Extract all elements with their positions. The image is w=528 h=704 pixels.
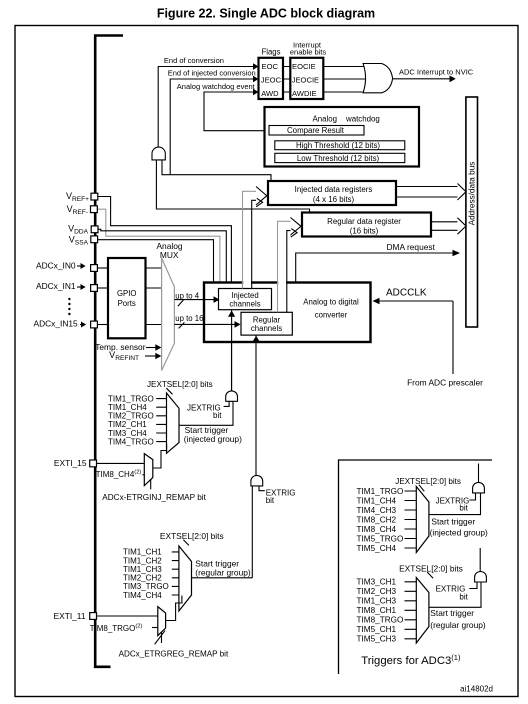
svg-text:TIM8_CH1: TIM8_CH1 — [357, 606, 397, 615]
svg-text:channels: channels — [251, 324, 282, 333]
ADC3 JEXTRIG bit label — [436, 493, 476, 512]
svg-text:(4 x 16 bits): (4 x 16 bits) — [313, 195, 355, 204]
svg-text:Compare Result: Compare Result — [287, 126, 345, 135]
svg-text:ADCx_IN0: ADCx_IN0 — [36, 260, 76, 270]
bus: injected channels to injected data registers — [243, 187, 267, 289]
wire: regular start trigger into channels — [253, 335, 260, 476]
ADC3 EXTSEL label — [399, 563, 463, 578]
flags register box — [259, 47, 284, 99]
wire: flags to enable connectors — [283, 67, 290, 93]
pin EXTI_15 — [54, 458, 144, 468]
wire: up to 16 — [174, 314, 240, 328]
svg-text:Injected data registers: Injected data registers — [295, 185, 373, 194]
svg-text:TIM5_CH4: TIM5_CH4 — [357, 544, 397, 553]
svg-text:enable bits: enable bits — [290, 47, 327, 56]
svg-text:converter: converter — [315, 310, 348, 319]
svg-text:Flags: Flags — [261, 47, 280, 56]
ADC3 injected trigger inputs — [357, 487, 417, 553]
svg-text:(16 bits): (16 bits) — [350, 227, 379, 236]
svg-text:Figure 22. Single ADC block di: Figure 22. Single ADC block diagram — [157, 7, 375, 21]
and-gate U4 (EXTRIG) — [251, 475, 263, 577]
svg-text:EXTI_15: EXTI_15 — [54, 458, 87, 468]
svg-text:Regular: Regular — [253, 316, 281, 325]
svg-text:TIM8_TRGO(2): TIM8_TRGO(2) — [90, 624, 143, 633]
svg-text:TIM1_CH3: TIM1_CH3 — [357, 597, 397, 606]
injected trigger inputs — [108, 394, 167, 446]
high threshold box — [275, 141, 405, 150]
vrefint input — [109, 350, 161, 362]
JEXTSEL label — [147, 380, 213, 394]
svg-text:EOCIE: EOCIE — [292, 62, 316, 71]
svg-text:TIM2_CH3: TIM2_CH3 — [357, 587, 397, 596]
TIM8_TRGO input — [90, 624, 158, 633]
wire: enable box to OR gate — [323, 67, 368, 93]
svg-text:End of injected conversion: End of injected conversion — [168, 69, 256, 78]
svg-text:EXTSEL[2:0] bits: EXTSEL[2:0] bits — [399, 563, 463, 573]
and-gate U1 (EOC combine) — [152, 147, 310, 212]
or-gate U2 (interrupt OR) — [363, 64, 393, 93]
svg-text:AWDIE: AWDIE — [292, 89, 317, 98]
svg-text:AWD: AWD — [261, 89, 279, 98]
mux: injected trigger select — [167, 393, 180, 453]
wire: up to 4 — [174, 292, 219, 307]
svg-text:JEOCIE: JEOCIE — [292, 76, 319, 85]
svg-text:Injected: Injected — [231, 291, 258, 300]
pin VDDA — [68, 224, 226, 283]
svg-text:End of conversion: End of conversion — [164, 56, 224, 65]
svg-text:TIM5_CH1: TIM5_CH1 — [357, 625, 397, 634]
svg-text:TIM1_TRGO: TIM1_TRGO — [357, 487, 404, 496]
regular channels box — [241, 312, 292, 335]
ADC3 regular trigger inputs — [357, 578, 417, 644]
bus: regular channels to regular data register — [278, 218, 302, 313]
and-gate U6 (ADC3 EXTRIG) — [475, 548, 487, 582]
svg-text:ADCCLK: ADCCLK — [386, 288, 427, 299]
svg-text:TIM4_TRGO: TIM4_TRGO — [108, 437, 154, 446]
ADC3 start trigger regular label — [430, 608, 486, 630]
svg-text:High Threshold (12 bits): High Threshold (12 bits) — [296, 141, 380, 150]
wire: U1 right input from injected data registers — [162, 160, 271, 181]
regular data register box — [302, 213, 431, 237]
TIM8_CH4 input — [96, 469, 145, 478]
injected channels box — [219, 289, 272, 310]
pin VSSA — [69, 234, 214, 282]
svg-text:Low Threshold (12 bits): Low Threshold (12 bits) — [297, 154, 380, 163]
svg-text:Triggers for ADC3(1): Triggers for ADC3(1) — [361, 653, 461, 667]
ADC3 JEXTSEL label — [395, 477, 461, 491]
analog to digital converter box — [204, 283, 371, 343]
svg-text:up to 16: up to 16 — [175, 314, 203, 323]
svg-text:EXTI_11: EXTI_11 — [54, 611, 86, 621]
svg-text:TIM8_TRGO: TIM8_TRGO — [357, 616, 404, 625]
svg-text:TIM5_CH3: TIM5_CH3 — [357, 635, 397, 644]
wire: Analog watchdog event — [177, 82, 269, 131]
wire: End of conversion — [158, 56, 258, 147]
GPIO ports box — [108, 258, 146, 338]
wire: injected start trigger into channels — [228, 310, 235, 392]
mux: regular trigger select — [179, 546, 192, 611]
start trigger regular label — [195, 559, 251, 578]
svg-text:JEOC: JEOC — [261, 76, 282, 85]
wire: ADC3 injected mux output — [429, 493, 481, 515]
svg-text:Address/data bus: Address/data bus — [468, 162, 477, 226]
compare result box — [269, 126, 364, 136]
wire: regular mux output — [192, 577, 253, 579]
svg-text:ADCx_ETRGREG_REMAP bit: ADCx_ETRGREG_REMAP bit — [119, 649, 229, 658]
svg-text:(regular group): (regular group) — [430, 620, 486, 630]
svg-text:Temp. sensor: Temp. sensor — [95, 342, 145, 352]
wire: DMA request — [296, 242, 460, 283]
svg-text:DMA request: DMA request — [387, 242, 436, 252]
svg-text:From ADC prescaler: From ADC prescaler — [407, 378, 483, 388]
svg-text:Regular data register: Regular data register — [327, 217, 401, 226]
svg-text:Ports: Ports — [118, 299, 136, 308]
wire: U1 left input from regular data register — [156, 160, 309, 213]
svg-text:channels: channels — [229, 300, 260, 309]
interrupt enable bits box — [290, 41, 327, 99]
svg-text:bit: bit — [459, 593, 468, 602]
low threshold box — [275, 153, 405, 163]
svg-text:Start trigger: Start trigger — [431, 516, 475, 526]
mux: injected remap — [144, 445, 166, 490]
and-gate U5 (ADC3 JEXTRIG) — [473, 464, 485, 493]
wire: End of injected conversion — [168, 69, 259, 175]
ADC3 start trigger injected label — [430, 516, 488, 537]
mux: ADC3 regular trigger select — [416, 578, 429, 644]
svg-text:TIM8_CH4: TIM8_CH4 — [357, 525, 397, 534]
regular trigger inputs — [123, 548, 179, 600]
svg-text:TIM8_CH2: TIM8_CH2 — [357, 515, 397, 524]
wire: regular register to bus (open arrow) — [431, 218, 466, 234]
wire: ADC3 regular mux output — [429, 582, 481, 607]
svg-text:Analog to digital: Analog to digital — [303, 297, 359, 306]
svg-text:TIM1_CH4: TIM1_CH4 — [357, 496, 397, 505]
pin ADCx_IN1 — [36, 281, 108, 291]
wire: ADC interrupt to NVIC — [393, 68, 474, 83]
injected data registers box — [268, 181, 396, 205]
analog mux trapezoid — [162, 258, 175, 371]
pin VREF+ — [66, 191, 231, 283]
and-gate U3 (JEXTRIG) — [226, 342, 238, 401]
ADC3 EXTRIG bit label — [436, 582, 477, 602]
svg-text:TIM3_CH1: TIM3_CH1 — [357, 578, 397, 587]
svg-text:EXTSEL[2:0] bits: EXTSEL[2:0] bits — [160, 531, 224, 541]
svg-text:bit: bit — [266, 496, 275, 505]
svg-text:watchdog: watchdog — [345, 114, 380, 123]
svg-text:(injected group): (injected group) — [184, 434, 242, 444]
pin ADCx_IN0 — [36, 260, 108, 271]
svg-text:ADCx_IN15: ADCx_IN15 — [34, 318, 79, 328]
start trigger injected label — [184, 425, 242, 444]
svg-text:Analog: Analog — [313, 114, 338, 123]
address/data bus bar — [466, 97, 478, 327]
temp sensor input — [95, 342, 161, 352]
svg-text:TIM1_CH1: TIM1_CH1 — [123, 548, 162, 557]
svg-text:JEXTSEL[2:0] bits: JEXTSEL[2:0] bits — [147, 380, 213, 389]
analog watchdog box — [265, 107, 420, 167]
svg-text:bit: bit — [459, 503, 468, 512]
gaps in converter top edge for data buses — [243, 281, 286, 284]
pin EXTI_11 — [54, 611, 158, 621]
EXTSEL label — [160, 531, 224, 545]
svg-text:JEXTSEL[2:0] bits: JEXTSEL[2:0] bits — [395, 477, 461, 486]
svg-text:EOC: EOC — [262, 62, 279, 71]
svg-text:ai14802d: ai14802d — [460, 684, 493, 693]
mux: regular remap — [155, 596, 182, 645]
svg-text:TIM5_TRGO: TIM5_TRGO — [357, 534, 404, 543]
svg-text:TIM4_CH3: TIM4_CH3 — [357, 506, 397, 515]
wire: thick left supply rail — [95, 36, 123, 667]
svg-text:(regular group): (regular group) — [195, 567, 251, 577]
svg-text:(injected group): (injected group) — [430, 527, 488, 537]
svg-text:Start trigger: Start trigger — [430, 608, 474, 618]
wire: injected registers to bus (open arrow) — [397, 184, 466, 201]
wire: injected mux output — [179, 401, 233, 425]
svg-text:ADCx_IN1: ADCx_IN1 — [36, 281, 76, 291]
wire: ADCCLK — [373, 288, 484, 388]
svg-text:GPIO: GPIO — [117, 289, 137, 298]
svg-text:TIM4_CH4: TIM4_CH4 — [123, 591, 162, 600]
vertical ellipsis dots — [68, 298, 70, 315]
svg-text:Analog watchdog event: Analog watchdog event — [177, 82, 256, 91]
pin VREF- — [67, 204, 220, 283]
svg-text:MUX: MUX — [160, 250, 179, 260]
pin ADCx_IN15 — [34, 318, 109, 328]
ADC3 corner bracket — [339, 460, 493, 674]
EXTRIG bit label — [259, 486, 295, 505]
mux: ADC3 injected trigger select — [416, 487, 429, 553]
JEXTRIG bit label — [187, 401, 229, 420]
wire: GPIO to analog mux — [146, 268, 162, 325]
svg-text:ADCx-ETRGINJ_REMAP bit: ADCx-ETRGINJ_REMAP bit — [102, 493, 206, 502]
svg-text:bit: bit — [213, 411, 222, 420]
svg-text:ADC Interrupt to NVIC: ADC Interrupt to NVIC — [399, 68, 474, 77]
